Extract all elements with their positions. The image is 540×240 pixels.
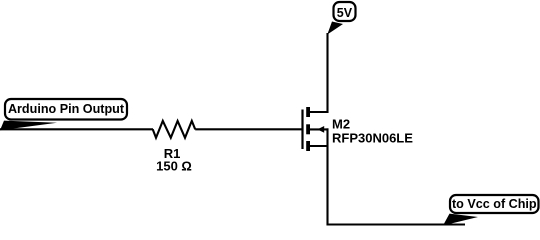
wire: source down (326, 128, 328, 225)
wire: left rail from edge to resistor (0, 128, 153, 130)
resistor R1 (153, 121, 196, 138)
channel bar: body (306, 124, 310, 134)
svg-text:M2: M2 (332, 116, 350, 131)
channel bar: drain (306, 107, 310, 117)
body stub with arrow (309, 128, 329, 130)
svg-text:to Vcc of Chip: to Vcc of Chip (452, 197, 537, 211)
svg-text:RFP30N06LE: RFP30N06LE (332, 131, 413, 146)
drain stub (309, 111, 329, 113)
svg-text:150 Ω: 150 Ω (156, 158, 192, 173)
wire: bottom rail (327, 223, 466, 225)
transistor M2 (N-MOSFET) (303, 107, 329, 151)
gate line (301, 110, 303, 150)
svg-text:Arduino Pin Output: Arduino Pin Output (8, 102, 125, 116)
node flag: to Vcc of Chip (443, 195, 539, 226)
node flag: Arduino Pin Output (0, 99, 127, 130)
channel bar: source (306, 141, 310, 151)
wire: drain up to 5V (326, 33, 328, 113)
wire: resistor to gate (195, 128, 302, 130)
source stub (309, 145, 329, 147)
net flag: 5V (327, 2, 355, 35)
svg-text:5V: 5V (337, 6, 353, 20)
